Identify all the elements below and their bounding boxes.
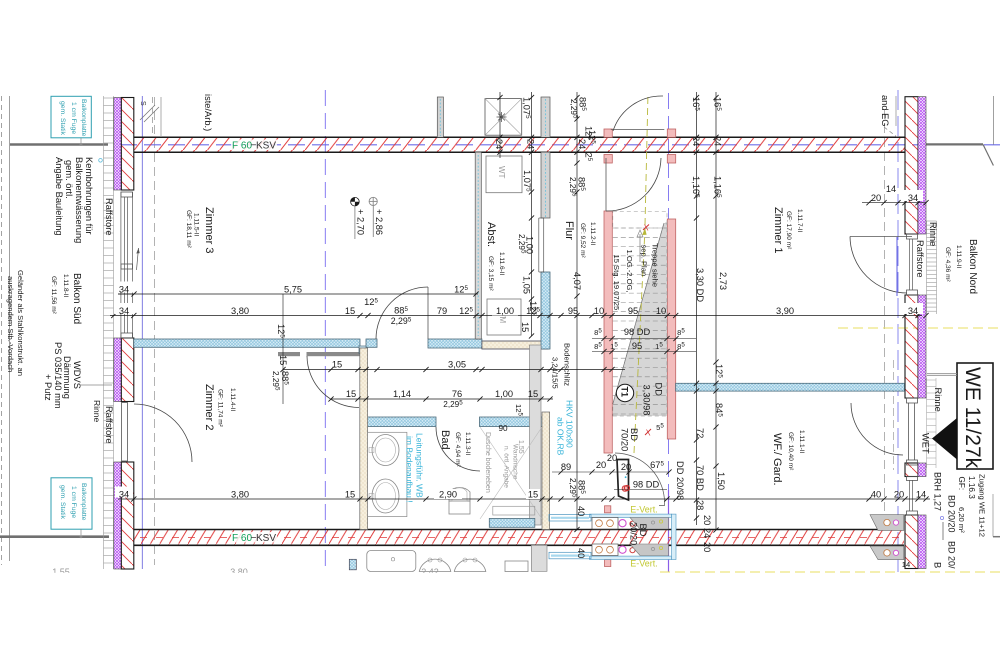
svg-text:Bad: Bad [439,430,451,450]
svg-text:F 60: F 60 [232,140,252,151]
svg-text:Geländer als Stahlkonstrukt. a: Geländer als Stahlkonstrukt. an [16,270,25,376]
svg-text:BRH 1,27: BRH 1,27 [933,472,943,511]
svg-text:GF: 10,40 m²: GF: 10,40 m² [787,432,794,471]
balcony slab edge right [926,143,983,145]
svg-text:1 cm Fuge: 1 cm Fuge [70,102,77,134]
svg-text:Bodenschlitz: Bodenschlitz [563,343,572,386]
door Zimmer 2 [307,356,359,408]
svg-text:20: 20 [596,460,606,470]
stair shaft right wall (pink) [667,129,675,137]
chain x531 [531,92,533,336]
Balkonplatte box bottom [51,478,92,529]
svg-text:10: 10 [656,306,666,316]
svg-text:GF: 11,74 m²: GF: 11,74 m² [217,389,224,428]
E-Vert right wall boxes [870,515,904,531]
F60 wall band bottom [134,530,904,546]
svg-text:95: 95 [628,306,638,316]
svg-text:BD 20/20: BD 20/20 [947,495,957,533]
WE box [957,363,993,469]
svg-text:BD 20/: BD 20/ [947,541,957,569]
WT box [486,156,522,193]
door WF/Gard with black leaf [615,453,665,506]
svg-text:1.11.8-II: 1.11.8-II [62,274,69,298]
window opening arrow left [137,248,139,270]
level marker Zimmer 3 [351,197,384,239]
chain x696.5 [696,92,698,525]
svg-text:20: 20 [871,193,881,203]
svg-text:im Bodenaufbau !: im Bodenaufbau ! [405,436,415,503]
Bad sinks counter [368,432,407,516]
svg-text:+ Putz: + Putz [43,374,53,401]
svg-text:GF: 17,90 m²: GF: 17,90 m² [785,211,792,250]
window Zimmer 1 (right) [907,234,918,295]
svg-text:KSV: KSV [256,140,276,151]
stair small dims [592,338,696,340]
jamb box at Zimmer2/Bad door [359,346,366,354]
svg-text:28: 28 [695,500,705,510]
kitchen below band [367,551,416,572]
cut marks top left [140,105,155,120]
svg-text:24: 24 [713,136,723,146]
svg-text:70/20: 70/20 [620,428,630,451]
svg-text:1.11.4-II: 1.11.4-II [229,388,236,412]
svg-text:3,30 DD: 3,30 DD [695,268,705,302]
dimension row E y499 [118,498,930,500]
svg-text:B: B [933,562,943,568]
T1 circle [616,384,633,401]
svg-text:70 BD: 70 BD [695,465,705,491]
svg-text:n. örtl. Angabe: n. örtl. Angabe [503,446,510,488]
svg-text:14: 14 [916,489,926,499]
chain x283 [282,294,284,404]
Bad left wall (beige) [360,348,368,530]
svg-text:DD: DD [654,383,664,397]
svg-text:95: 95 [568,306,578,316]
dimension row right y202.7 [862,202,926,204]
svg-text:15: 15 [346,389,356,399]
svg-text:79: 79 [437,306,447,316]
svg-text:1,14: 1,14 [393,389,411,399]
svg-text:Kernbohrungen für: Kernbohrungen für [84,157,94,235]
E-Vert shaft center [590,514,677,559]
svg-text:10: 10 [594,306,604,316]
red mark near stair top [643,225,649,231]
svg-text:Balkonplatte: Balkonplatte [80,483,87,521]
svg-text:3,30/98: 3,30/98 [642,385,652,416]
svg-text:PS 035/140 mm: PS 035/140 mm [53,342,63,409]
svg-text:Raffstore: Raffstore [104,198,114,236]
svg-text:Flur: Flur [563,221,575,240]
svg-text:20: 20 [702,542,712,552]
chain x577 [576,92,578,530]
svg-text:F 60: F 60 [232,533,252,544]
svg-text:1.11.1-II: 1.11.1-II [798,430,805,454]
stair landing dashes [613,212,667,229]
svg-text:Treppe siehe: Treppe siehe [651,243,660,287]
svg-text:20: 20 [621,462,631,472]
svg-text:98 DD: 98 DD [633,480,660,490]
svg-text:Balkon Nord: Balkon Nord [967,239,978,294]
svg-text:DD 20/98: DD 20/98 [675,461,685,500]
svg-text:Raffstore: Raffstore [104,406,114,444]
dimension row B y315.5 [110,315,922,317]
svg-text:1,55: 1,55 [517,440,524,454]
svg-text:T1: T1 [620,387,630,398]
svg-text:14: 14 [902,560,910,569]
svg-text:2,90: 2,90 [439,489,457,499]
svg-text:95: 95 [632,341,642,351]
door arc top band above [611,128,665,130]
svg-text:GF: 11,56 m²: GF: 11,56 m² [50,276,57,315]
axis lines [1,96,3,565]
stair walking line [634,228,645,453]
svg-text:24: 24 [494,139,504,149]
balcony slab edge left [10,143,108,146]
svg-text:E-Vert.: E-Vert. [630,505,658,515]
svg-text:WE 11/27k: WE 11/27k [961,367,984,469]
svg-text:40: 40 [576,548,586,558]
svg-text:Zimmer 2: Zimmer 2 [203,384,215,430]
svg-text:5,75: 5,75 [284,284,302,294]
Bad bottom cyan wall [489,519,535,528]
svg-text:6,20 m²: 6,20 m² [957,507,966,533]
svg-text:1,50: 1,50 [716,472,726,490]
svg-text:Abst.: Abst. [485,222,497,247]
svg-text:iste/Arb.): iste/Arb.) [203,94,213,131]
svg-text:BD: BD [638,524,648,537]
svg-text:40: 40 [871,489,881,499]
Bad right wall (beige) [542,412,550,530]
svg-text:40: 40 [576,506,586,516]
svg-text:Zimmer 3: Zimmer 3 [203,207,215,253]
svg-text:auskragendem Stb.-Vordach: auskragendem Stb.-Vordach [6,276,15,372]
dimension row D y399 [331,398,553,400]
svg-text:GF: 3,15 m²: GF: 3,15 m² [487,256,494,292]
svg-text:34: 34 [119,284,129,294]
svg-text:98 DD: 98 DD [624,327,651,337]
svg-text:WF./ Gard.: WF./ Gard. [771,433,783,486]
svg-text:+ 2,70: + 2,70 [355,209,365,235]
svg-text:WET: WET [921,433,931,454]
svg-text:GF: 9,52 m²: GF: 9,52 m² [579,223,586,259]
svg-text:76: 76 [452,389,462,399]
svg-text:15 Stg. 19.07/25: 15 Stg. 19.07/25 [612,255,621,311]
svg-text:1 cm Fuge: 1 cm Fuge [70,486,77,518]
wall stair/WF-Gard (cyan, y383) [676,383,905,391]
svg-text:2,73: 2,73 [718,272,728,290]
F60 wall band top [134,137,905,152]
svg-text:Balkonentwässerung: Balkonentwässerung [74,157,84,243]
svg-text:34: 34 [908,306,918,316]
svg-text:20: 20 [607,453,617,463]
svg-text:1.11.6-II: 1.11.6-II [498,252,505,276]
chain x500 [499,92,501,158]
door Bad [436,427,480,471]
left exterior wall segments [114,98,122,191]
svg-text:Leitungsführ. WB: Leitungsführ. WB [415,433,425,498]
svg-text:15: 15 [332,360,342,370]
door arc top band below (entry to Flur) [606,158,661,211]
svg-text:3,05: 3,05 [448,360,466,370]
svg-text:1.11.2-II: 1.11.2-II [589,222,596,246]
svg-text:20: 20 [894,489,904,499]
wall W2 Abst/Flur [541,97,550,137]
shower [480,427,542,519]
door Zimmer 1 balcony [850,237,907,294]
small dims around WF door [552,471,669,473]
svg-text:S: S [139,101,146,106]
svg-text:sep. Plan: sep. Plan [640,245,649,277]
svg-text:E-Vert.: E-Vert. [630,559,658,569]
svg-text:Raffstore: Raffstore [915,240,925,278]
svg-text:24: 24 [691,136,701,146]
window Zugang right lower [907,477,918,516]
svg-text:24: 24 [702,528,712,538]
interior wall Zimmer3/Zimmer2 (cyan, y339) [134,339,360,347]
svg-text:24: 24 [526,139,536,149]
svg-text:90: 90 [498,424,508,433]
svg-text:WT: WT [497,166,506,179]
svg-text:34: 34 [119,489,129,499]
svg-text:3,90: 3,90 [776,306,794,316]
svg-text:1.OG.-2.OG,: 1.OG.-2.OG, [625,250,634,293]
open arrow in stair [639,234,641,262]
railing Balkon Sued (ladder hatch) [104,96,114,569]
svg-text:15: 15 [528,389,538,399]
svg-text:24: 24 [577,139,587,149]
stair treads grey wedge [613,223,667,416]
railing Balkon Nord [927,221,937,314]
wall above band x437 [437,97,443,137]
cyan pipe strips near Bad [549,515,591,522]
svg-text:14: 14 [886,184,896,194]
svg-text:1.11.9-II: 1.11.9-II [955,245,962,269]
svg-text:4,07: 4,07 [572,272,582,290]
svg-text:BD: BD [629,428,639,441]
svg-text:Rinne: Rinne [928,222,938,246]
row A/B ticks on left wall [118,293,134,295]
svg-text:20: 20 [702,515,712,525]
svg-text:3,24/15/5: 3,24/15/5 [551,357,560,389]
door WET into WF/Gard [851,403,903,455]
door Abst niche (swings up) [427,287,429,339]
svg-text:gem. Statik: gem. Statik [59,485,66,520]
grey door bars below wall [278,352,300,356]
stair shaft left wall (pink) [604,129,612,137]
svg-text:GF:: GF: [957,477,966,491]
svg-text:1.11.3-II: 1.11.3-II [464,432,471,456]
svg-text:Balkonplatte: Balkonplatte [80,99,87,137]
svg-text:gem. örtl.: gem. örtl. [64,160,74,199]
red mark in stair [645,429,651,435]
svg-text:Zugang WE 11+12: Zugang WE 11+12 [978,474,987,537]
window Zimmer 3 (left) [121,192,133,338]
svg-text:Balkon Süd: Balkon Süd [71,273,82,324]
WM box [487,299,521,335]
railing right lower (Zugang) [927,378,937,468]
svg-text:15: 15 [278,355,288,365]
chain x718 [715,92,717,530]
svg-text:3,80: 3,80 [231,489,249,499]
svg-text:1,05: 1,05 [522,276,532,294]
shaft box with X above band [485,99,522,136]
door Zimmer 2 to balcony [122,403,128,462]
svg-text:GF: 18,11 m²: GF: 18,11 m² [185,210,192,249]
wall W1 Zimmer3/Abst [475,152,481,339]
svg-text:15: 15 [345,306,355,316]
small bits above band near 512 [448,500,450,502]
dimension row A y294 [118,293,478,295]
dimension row C y369.5 [283,369,625,371]
svg-text:15: 15 [528,489,538,499]
svg-text:1.11.7-II: 1.11.7-II [796,209,803,233]
F60 KSV texts [231,140,277,151]
svg-text:Zimmer 1: Zimmer 1 [772,207,784,253]
svg-text:Dusche bodeneben: Dusche bodeneben [484,432,491,493]
right exterior wall segments [905,97,918,234]
svg-text:gem. Statik: gem. Statik [59,101,66,136]
svg-text:1.11.5-II: 1.11.5-II [193,213,200,237]
pink stubs at shaft bottom [605,506,611,513]
svg-text:1,00: 1,00 [496,306,514,316]
svg-text:15: 15 [520,322,530,332]
svg-text:GF: 4,36 m²: GF: 4,36 m² [944,247,951,283]
svg-text:34: 34 [119,306,129,316]
svg-text:72: 72 [695,428,705,438]
shelf / open door Abst [538,218,540,272]
svg-text:and EG: and EG [880,95,890,127]
svg-text:ab OK.RB: ab OK.RB [556,417,566,456]
svg-text:1,00: 1,00 [525,236,535,254]
svg-text:15: 15 [345,489,355,499]
svg-text:1.16.3: 1.16.3 [967,476,976,499]
svg-text:KSV: KSV [256,533,276,544]
svg-text:Rinne: Rinne [92,400,102,422]
door WET (apartment entry) frame [907,398,918,465]
WC [449,487,470,501]
svg-text:20/20: 20/20 [629,522,639,545]
svg-text:+ 2,86: + 2,86 [374,209,384,235]
grey shaft strip [530,345,542,525]
svg-text:GF: 4,94 m²: GF: 4,94 m² [454,432,461,468]
black triangle [932,418,957,460]
svg-text:34: 34 [908,193,918,203]
wall Bad top (y417) [365,417,436,427]
Balkonplatte box top [51,96,91,138]
svg-text:Rinne: Rinne [933,388,943,412]
svg-text:3,80: 3,80 [231,306,249,316]
svg-text:Angabe Bauleitung: Angabe Bauleitung [54,157,64,236]
svg-text:1,00: 1,00 [495,389,513,399]
